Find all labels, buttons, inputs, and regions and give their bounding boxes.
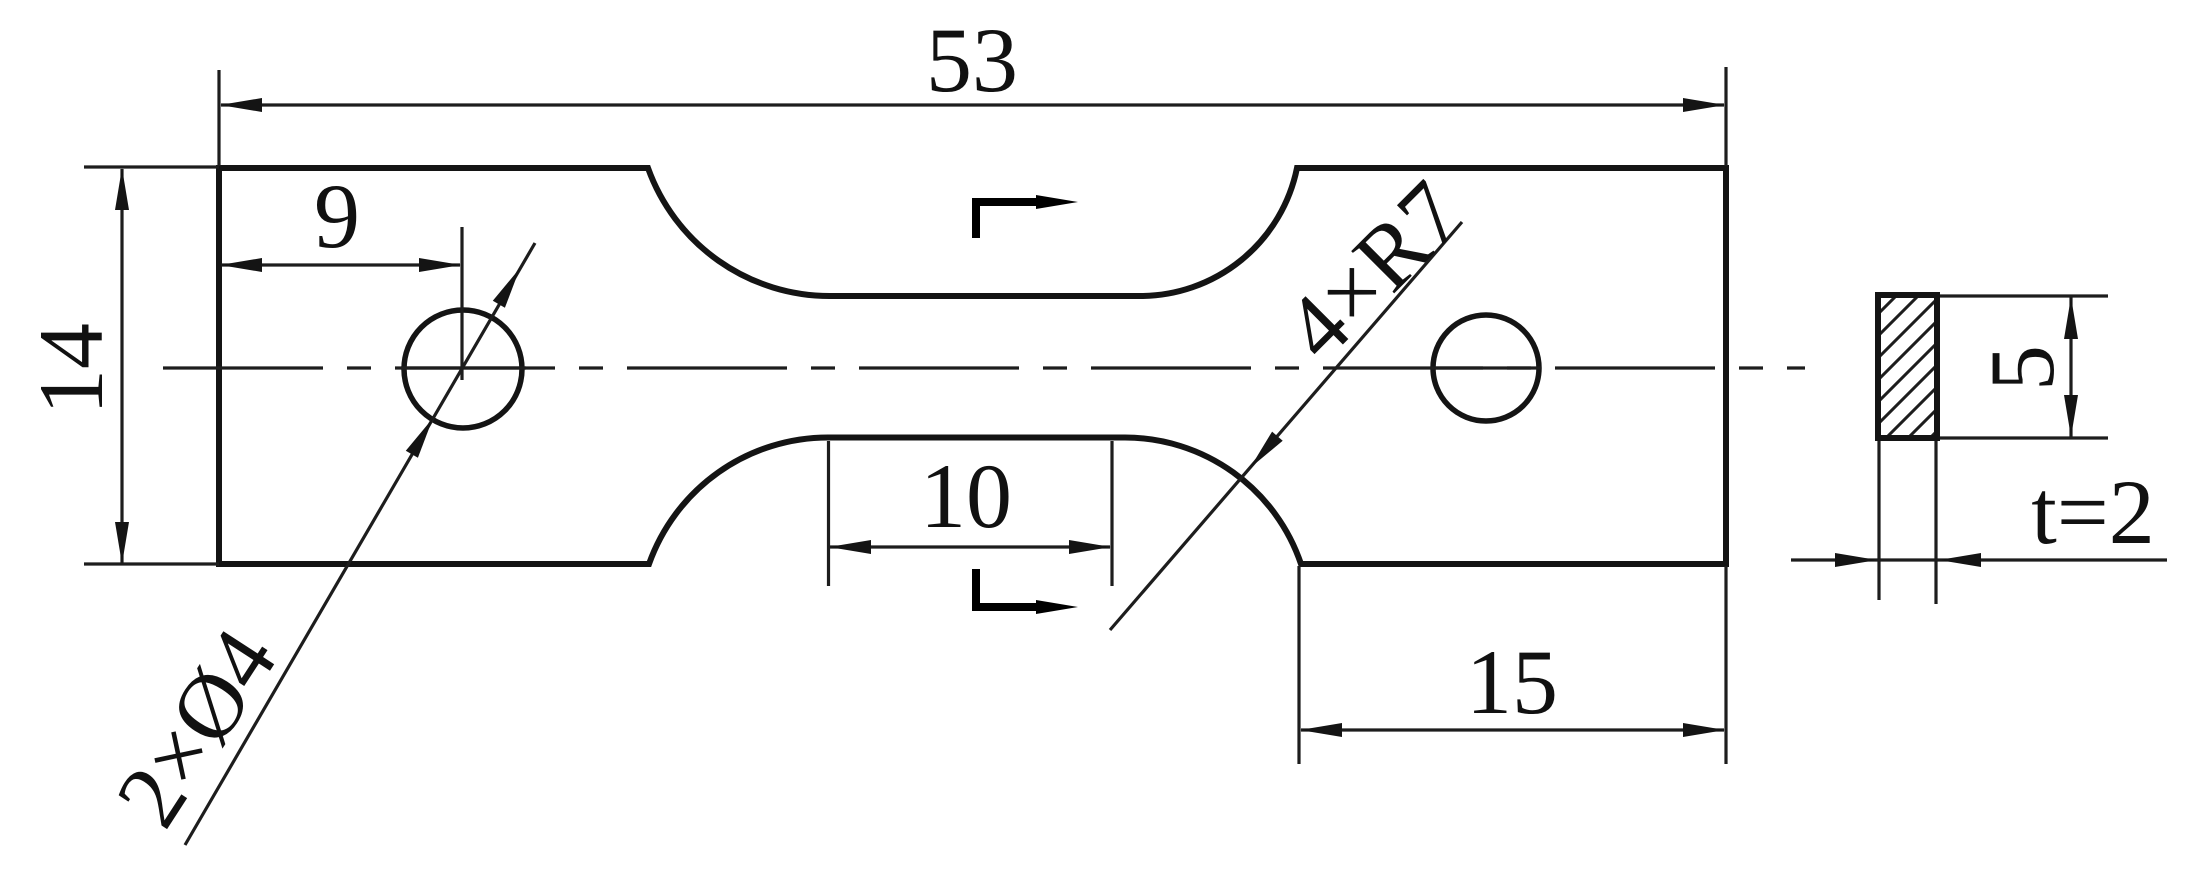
leader 2xD4 line <box>185 243 535 845</box>
leader 2xD4 arrow upper <box>493 268 520 308</box>
svg-text:53: 53 <box>926 9 1018 111</box>
section view rect <box>1878 295 1937 438</box>
dim 14 extension bottom <box>84 562 219 565</box>
hole left <box>404 310 522 428</box>
svg-text:2×Ø4: 2×Ø4 <box>96 611 296 843</box>
dim 10 extension left <box>827 441 830 586</box>
section edge extension left below <box>1877 441 1880 600</box>
dim 5 extension bottom <box>1940 436 2108 439</box>
leader 4xR7 arrow <box>1250 432 1283 468</box>
dim 15 extension right <box>1724 566 1727 764</box>
section mark top arrow <box>1036 195 1078 209</box>
svg-text:5: 5 <box>1971 345 2073 391</box>
svg-text:15: 15 <box>1466 631 1558 733</box>
svg-text:t=2: t=2 <box>2031 461 2154 563</box>
dim 14 text <box>20 323 122 415</box>
dim 15 arrow left <box>1300 723 1342 737</box>
dim t arrow right side <box>1939 553 1981 567</box>
svg-text:4×R7: 4×R7 <box>1265 162 1482 379</box>
dim 53 arrow left <box>220 98 262 112</box>
dim 5 arrow down <box>2064 395 2078 437</box>
svg-text:14: 14 <box>20 323 122 415</box>
leader 2xD4 text <box>96 611 296 843</box>
dim 9 arrow right <box>419 258 461 272</box>
section mark bottom <box>976 569 1042 607</box>
dim 53 line <box>221 103 1724 106</box>
section mark top <box>976 202 1042 238</box>
dim 5 line <box>2069 297 2072 437</box>
dim 53 extension left <box>217 70 220 166</box>
dim 10 arrow right <box>1069 540 1111 554</box>
dim 5 text <box>1971 345 2073 391</box>
dim 5 extension top <box>1940 294 2108 297</box>
svg-text:9: 9 <box>314 165 360 267</box>
svg-text:10: 10 <box>920 445 1012 547</box>
leader 4xR7 text <box>1265 162 1482 379</box>
specimen body outline <box>219 168 1726 564</box>
dim 9 line <box>221 263 460 266</box>
section mark bottom arrow <box>1036 600 1078 614</box>
dim 14 arrow down <box>115 522 129 564</box>
leader 4xR7 line <box>1110 222 1462 630</box>
dim 53 arrow right <box>1683 98 1725 112</box>
dim 5 arrow up <box>2064 297 2078 339</box>
dim 15 arrow right <box>1683 723 1725 737</box>
dim t line <box>1791 558 2167 561</box>
dim 15 line <box>1301 728 1724 731</box>
dim 10 arrow left <box>829 540 871 554</box>
dim 14 line <box>120 169 123 563</box>
dim 15 extension left <box>1297 566 1300 764</box>
hole vertical centerline <box>460 227 463 380</box>
dim 14 extension top <box>84 165 219 168</box>
dim 10 extension right <box>1110 441 1113 586</box>
leader 2xD4 arrow lower <box>406 418 433 458</box>
hole right <box>1433 315 1539 421</box>
dim t arrow left side <box>1835 553 1877 567</box>
dim 53 extension right <box>1724 67 1727 166</box>
section edge extension right below <box>1934 441 1937 604</box>
section view hatch <box>1850 192 2000 518</box>
dim 10 line <box>830 545 1110 548</box>
dim 14 arrow up <box>115 168 129 210</box>
centerline horizontal <box>163 366 1805 369</box>
dim 9 arrow left <box>220 258 262 272</box>
